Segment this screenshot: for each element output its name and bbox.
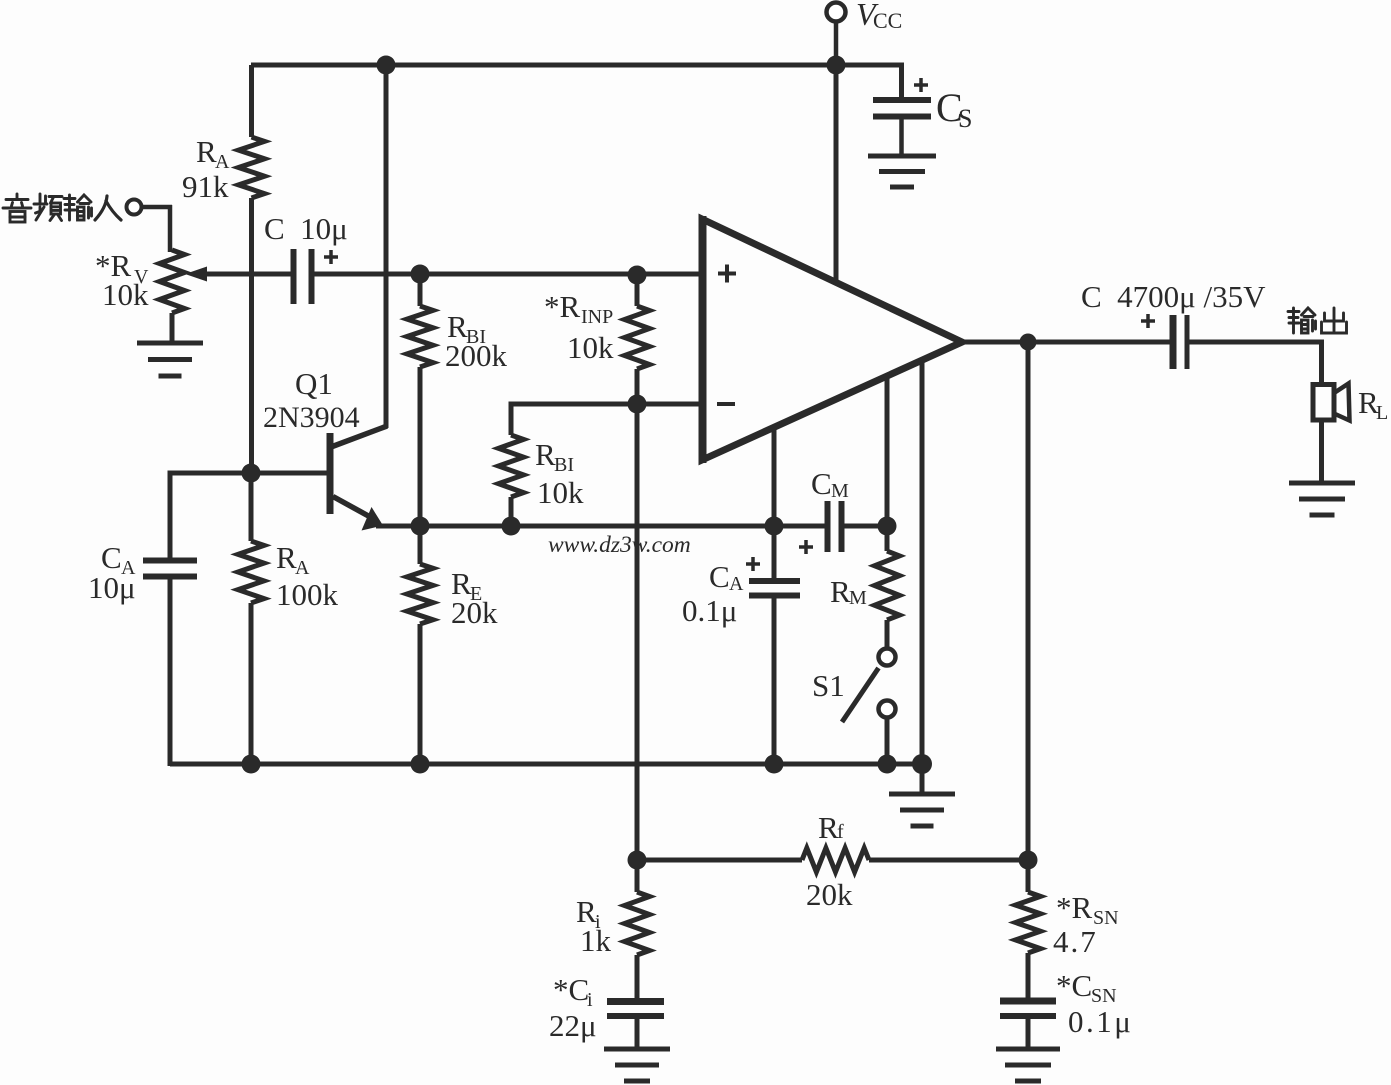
label CSN 0.1u — [1056, 968, 1133, 1039]
svg-text:M: M — [849, 587, 867, 609]
terminal Vcc — [827, 3, 846, 66]
svg-text:4.7: 4.7 — [1053, 924, 1098, 959]
svg-text:R: R — [535, 437, 556, 472]
label CA 10u — [88, 540, 136, 605]
svg-text:0.1μ: 0.1μ — [682, 593, 737, 628]
node inverting input junction — [628, 395, 647, 414]
ground below CSN — [996, 1049, 1060, 1081]
ground below RL — [1289, 483, 1355, 515]
label RV 10k — [95, 248, 149, 312]
op-amp U1 — [702, 216, 962, 463]
label RL — [1358, 385, 1388, 424]
wire + input signal — [314, 272, 700, 277]
svg-text:INP: INP — [581, 306, 613, 328]
wire op-amp output — [959, 340, 1171, 345]
capacitor C 4700u/35V — [1141, 314, 1187, 369]
node CA0.1 top junction — [765, 517, 784, 536]
node bus S1 — [878, 755, 897, 774]
svg-text:CC: CC — [873, 8, 902, 33]
svg-text:*R: *R — [544, 289, 581, 324]
capacitor CM — [799, 501, 887, 554]
svg-text:C: C — [709, 559, 730, 594]
svg-text:M: M — [831, 480, 849, 502]
wire L to RBI 10k — [509, 404, 638, 435]
svg-text:www.dz3w.com: www.dz3w.com — [548, 532, 691, 558]
label RA 100k — [276, 540, 339, 612]
wire inverting node vertical — [635, 404, 640, 860]
label Ci 22u — [549, 972, 597, 1043]
svg-text:R: R — [196, 134, 217, 169]
svg-text:S1: S1 — [812, 668, 845, 703]
label C 10u — [264, 211, 348, 246]
svg-text:R: R — [276, 540, 297, 575]
wire output feedback drop — [1026, 342, 1031, 860]
node RBI200k top — [411, 265, 430, 284]
svg-text:10k: 10k — [567, 330, 614, 365]
svg-text:f: f — [837, 821, 844, 843]
svg-text:1k: 1k — [580, 923, 612, 958]
resistor RM — [875, 526, 900, 650]
svg-text:R: R — [818, 810, 839, 845]
resistor RSN 4.7 — [1016, 860, 1041, 999]
svg-text:C: C — [811, 466, 832, 501]
label CM — [811, 466, 849, 502]
svg-text:0.1μ: 0.1μ — [1068, 1004, 1133, 1039]
svg-text:*C: *C — [1056, 968, 1092, 1003]
resistor Rf 20k — [802, 848, 1028, 872]
ground below RV — [137, 343, 203, 376]
ground below CS — [868, 156, 936, 187]
potentiometer RV 10k — [160, 250, 185, 343]
svg-text:BI: BI — [554, 454, 574, 476]
svg-text:A: A — [729, 573, 744, 595]
ground main — [889, 794, 955, 826]
wire Vcc to op-amp — [834, 65, 839, 284]
resistor RA 91k — [239, 65, 265, 473]
resistor RINP 10k — [625, 275, 650, 404]
wire op-amp edge drop to ground — [920, 361, 925, 792]
terminal audio input — [127, 200, 173, 253]
capacitor C 10u coupling — [294, 249, 339, 304]
label CA 0.1u — [682, 559, 744, 628]
node bus RA100k — [242, 755, 261, 774]
label RINP 10k — [544, 289, 614, 365]
node emitter-RE junction — [411, 517, 430, 536]
svg-text:200k: 200k — [445, 338, 508, 373]
node CM-RM junction — [878, 517, 897, 536]
label S1 — [812, 668, 845, 703]
resistor RBI 200k — [407, 274, 433, 526]
svg-text:20k: 20k — [806, 877, 853, 912]
svg-text:L: L — [1376, 402, 1388, 424]
node collector-bus junction — [377, 56, 396, 75]
op-amp - pin mark — [717, 402, 735, 406]
node bus CA0.1 — [765, 755, 784, 774]
resistor Ri 1k — [625, 860, 650, 999]
label output (Chinese) — [1288, 308, 1347, 333]
node output junction — [1020, 334, 1037, 351]
ground below Ci — [604, 1049, 670, 1081]
wire output to RL — [1190, 342, 1325, 385]
capacitor Ci 22u — [607, 1002, 664, 1050]
resistor RBI 10k — [499, 435, 524, 526]
svg-text:91k: 91k — [182, 169, 229, 204]
op-amp + pin mark — [718, 265, 736, 283]
wire Rf left — [637, 858, 802, 863]
label RSN 4.7 — [1053, 890, 1119, 959]
capacitor CA 0.1u — [746, 526, 800, 764]
label C 4700u/35V — [1081, 279, 1266, 314]
svg-text:20k: 20k — [451, 595, 498, 630]
watermark — [548, 532, 691, 558]
svg-text:100k: 100k — [276, 577, 339, 612]
node bus RE — [411, 755, 430, 774]
label RBI 200k — [445, 309, 508, 373]
wire RL to ground — [1319, 420, 1324, 482]
transistor Q1 2N3904 — [251, 65, 387, 531]
label Rf 20k — [806, 810, 853, 912]
capacitor CA 10u — [143, 561, 197, 767]
wire to inverting input — [637, 402, 700, 407]
label RBI 10k second — [535, 437, 584, 510]
wire op-amp edge drop to CM/RM — [885, 378, 890, 526]
resistor RE 20k — [407, 526, 433, 764]
resistor RA 100k — [238, 473, 264, 764]
label RA 91k — [182, 134, 230, 204]
capacitor CS — [873, 78, 931, 155]
label Q1 2N3904 — [263, 366, 360, 434]
wiper arrow of RV — [185, 267, 294, 282]
label audio input (Chinese) — [3, 194, 121, 222]
label Vcc — [856, 0, 902, 33]
node Rf right junction — [1019, 851, 1038, 870]
node Vcc junction — [827, 56, 846, 75]
svg-text:*R: *R — [1056, 890, 1093, 925]
svg-text:*C: *C — [553, 972, 589, 1007]
svg-text:R: R — [830, 574, 851, 609]
label RM — [830, 574, 867, 609]
label RE 20k — [451, 566, 498, 630]
svg-text:S: S — [958, 104, 972, 133]
svg-text:22μ: 22μ — [549, 1008, 597, 1043]
wire base node to CA 10u — [168, 473, 252, 559]
wire emitter rail — [376, 524, 825, 529]
svg-text:2N3904: 2N3904 — [263, 401, 360, 434]
wire ground bus — [170, 762, 922, 767]
node Rf left junction — [628, 851, 647, 870]
wire op-amp lower edge drop to CA 0.1u — [772, 427, 777, 526]
node base junction — [242, 464, 261, 483]
node RINP top — [628, 266, 647, 285]
switch S1 — [842, 649, 896, 765]
label Ri 1k — [576, 894, 612, 958]
label CS — [936, 85, 972, 133]
svg-text:C 10μ: C 10μ — [264, 211, 348, 246]
svg-text:10k: 10k — [537, 475, 584, 510]
svg-text:10μ: 10μ — [88, 570, 136, 605]
svg-text:10k: 10k — [102, 277, 149, 312]
node RBI10k bottom junction — [502, 517, 521, 536]
capacitor CSN 0.1u — [1000, 1001, 1056, 1049]
wire top supply bus — [251, 63, 904, 100]
svg-text:Q1: Q1 — [295, 366, 333, 401]
svg-text:C 4700μ /35V: C 4700μ /35V — [1081, 279, 1266, 314]
svg-text:A: A — [295, 557, 310, 579]
node bus ground — [912, 754, 932, 774]
speaker RL — [1313, 384, 1350, 421]
